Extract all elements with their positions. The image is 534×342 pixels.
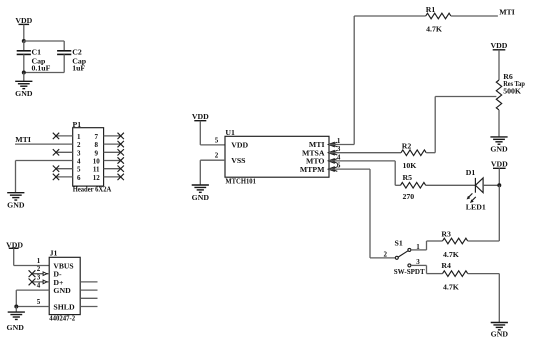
ground symbol (U1) xyxy=(192,185,210,202)
wire P1 pin4 to ground xyxy=(16,161,73,193)
wire J1 shield pin 4 xyxy=(80,306,97,308)
wire VDD stem to node xyxy=(23,24,25,41)
switch S1 pole contact (pin2) xyxy=(395,256,398,259)
S1 pin 3 number xyxy=(416,258,420,266)
wire R5 left xyxy=(395,184,400,186)
wire P1 pin 7 xyxy=(104,135,121,137)
input arrow U1 pin6 xyxy=(328,167,337,172)
svg-text:3: 3 xyxy=(337,145,341,153)
S1 pin 2 number xyxy=(384,250,388,258)
U1 pin name MTPM xyxy=(300,165,325,174)
svg-text:MTPM: MTPM xyxy=(300,165,325,174)
net label MTI (top-right) xyxy=(499,8,515,17)
wire P1 pin5 xyxy=(56,168,73,170)
P1 pin 10 number xyxy=(93,158,101,166)
switch S1 lever xyxy=(398,251,408,257)
wire R2 right to tap xyxy=(426,152,435,154)
svg-text:10: 10 xyxy=(93,158,101,166)
svg-text:LED1: LED1 xyxy=(466,203,486,212)
svg-text:VSS: VSS xyxy=(231,156,245,165)
J1 pin 3 number xyxy=(37,273,41,281)
power flag VDD (J1) xyxy=(6,240,23,249)
wire R5 to LED xyxy=(426,184,476,186)
svg-text:SHLD: SHLD xyxy=(53,302,75,311)
svg-text:5: 5 xyxy=(215,136,219,144)
switch S1 throw contact (pin1) xyxy=(408,248,411,251)
connector P1 designator xyxy=(73,120,82,129)
wire J1 shield pin 2 xyxy=(80,289,97,291)
input arrow J1 pin2 xyxy=(43,272,47,276)
P1 pin 5 number xyxy=(77,166,81,174)
no-connect X on P1 pin3 xyxy=(53,149,59,155)
wire VDD to U1 pin5 xyxy=(200,121,225,145)
svg-text:12: 12 xyxy=(93,174,101,182)
svg-text:SW-SPDT: SW-SPDT xyxy=(394,267,426,276)
P1 pin 1 number xyxy=(77,133,81,141)
P1 pin 11 number xyxy=(93,166,100,174)
svg-text:R3: R3 xyxy=(441,230,451,239)
wire J1 pin2 xyxy=(32,273,49,275)
LED D1 xyxy=(466,168,486,212)
switch S1 designator xyxy=(395,239,403,248)
wire J1 pin4 to ground node xyxy=(16,290,49,306)
J1 pin name D- xyxy=(53,270,62,279)
svg-text:GND: GND xyxy=(192,193,210,202)
no-connect X on P1 pin5 xyxy=(53,166,59,172)
no-connect X on P1 pin 12 xyxy=(118,174,124,180)
resistor R1 xyxy=(426,5,451,33)
P1 pin 8 number xyxy=(94,141,98,149)
U1 value label MTCH101 xyxy=(225,176,256,185)
svg-text:440247-2: 440247-2 xyxy=(49,314,75,323)
wire R1 right to MTI xyxy=(451,15,498,17)
svg-text:1: 1 xyxy=(77,133,81,141)
ground symbol (J1) xyxy=(7,312,25,332)
power flag VDD (top-left) xyxy=(15,16,32,25)
svg-text:500K: 500K xyxy=(503,87,521,96)
switch S1 throw contact (pin3) xyxy=(408,264,411,267)
svg-text:8: 8 xyxy=(94,141,98,149)
U1 pin 6 number xyxy=(337,162,341,170)
P1 pin 2 number xyxy=(77,141,81,149)
resistor R6 (Res Tap) xyxy=(496,72,525,110)
wire VDD stem to LED node xyxy=(498,168,500,185)
wire R1 left xyxy=(354,15,426,17)
wire R4 right down to ground xyxy=(468,274,500,323)
resistor R5 xyxy=(401,173,426,201)
J1 value label xyxy=(49,314,75,323)
wire U1 pin1 up to R1 row xyxy=(329,16,354,145)
no-connect X on P1 pin 10 xyxy=(118,157,124,163)
wire U1 pin4 down to R5 xyxy=(329,161,395,185)
U1 pin name MTSA xyxy=(302,148,325,157)
S1 pin 1 number xyxy=(416,243,420,251)
wire VDD to R6 xyxy=(498,50,500,80)
wire R3 right up to LED node xyxy=(468,240,500,242)
wire U1 pin6 to S1 xyxy=(329,169,395,258)
svg-text:GND: GND xyxy=(7,323,25,332)
U1 pin name MTI xyxy=(309,140,325,149)
wire node to ground xyxy=(23,73,25,82)
no-connect X on P1 pin 9 xyxy=(118,149,124,155)
svg-text:2: 2 xyxy=(37,265,41,273)
ground symbol (top-left) xyxy=(15,81,33,98)
node junction (LED/VDD/R3) xyxy=(497,183,501,187)
wire P1 pin 10 xyxy=(104,160,121,162)
svg-text:11: 11 xyxy=(93,166,100,174)
resistor R2 xyxy=(401,141,426,170)
svg-text:7: 7 xyxy=(94,133,98,141)
U1 designator xyxy=(225,128,235,137)
J1 pin 4 number xyxy=(37,282,41,290)
wire S1 pin3 to R4 xyxy=(411,265,443,273)
svg-text:GND: GND xyxy=(15,89,33,98)
connector J1 body xyxy=(49,257,80,314)
svg-text:2: 2 xyxy=(77,141,81,149)
wire U1 pin2 to ground xyxy=(200,160,225,185)
svg-text:MTI: MTI xyxy=(499,8,515,17)
svg-text:GND: GND xyxy=(490,145,508,154)
wire LED node down to R3 xyxy=(498,185,500,241)
no-connect X on J1 pin3 xyxy=(29,279,36,286)
P1 pin 3 number xyxy=(77,149,81,157)
J1 pin name SHLD xyxy=(53,302,75,311)
svg-text:S1: S1 xyxy=(395,239,403,248)
svg-text:4: 4 xyxy=(337,153,341,161)
U1 pin name VSS xyxy=(231,156,245,165)
U1 pin name MTO xyxy=(306,157,324,166)
power flag VDD (U1) xyxy=(192,112,209,121)
node junction bottom (C1/C2/GND) xyxy=(22,71,26,75)
connector P1 body xyxy=(73,128,104,186)
power flag VDD (R6) xyxy=(491,41,508,50)
wire J1 shield pin 1 xyxy=(80,281,97,283)
input arrow U1 pin3 xyxy=(328,150,337,155)
P1 pin 9 number xyxy=(94,149,98,157)
wire R6 tap xyxy=(435,97,496,153)
svg-text:VDD: VDD xyxy=(231,141,248,150)
wire P1 pin 11 xyxy=(104,168,121,170)
P1 pin 7 number xyxy=(94,133,98,141)
wire P1 pin 8 xyxy=(104,143,121,145)
P1 pin 4 number xyxy=(77,158,81,166)
svg-text:R2: R2 xyxy=(402,141,412,150)
svg-text:6: 6 xyxy=(77,174,81,182)
IC U1 body xyxy=(225,136,329,177)
svg-text:1: 1 xyxy=(337,137,341,145)
power flag VDD (LED) xyxy=(491,160,508,169)
input arrow J1 pin3 xyxy=(43,280,47,284)
wire J1 pin5 (SHLD) xyxy=(16,306,49,308)
wire U1 pin3 to R2 xyxy=(329,152,401,154)
no-connect X on J1 pin2 xyxy=(29,270,36,277)
svg-text:GND: GND xyxy=(53,286,71,295)
svg-text:GND: GND xyxy=(7,201,25,210)
svg-text:6: 6 xyxy=(337,162,341,170)
no-connect X on P1 pin 11 xyxy=(118,166,124,172)
no-connect X on P1 pin1 xyxy=(53,133,59,139)
no-connect X on P1 pin 8 xyxy=(118,141,124,147)
svg-text:2: 2 xyxy=(384,250,388,258)
node junction top (VDD/C1/C2) xyxy=(22,39,26,43)
svg-text:C1: C1 xyxy=(32,48,42,57)
wire VDD to J1 pin1 xyxy=(14,248,50,265)
svg-text:R4: R4 xyxy=(441,261,451,270)
svg-text:3: 3 xyxy=(37,273,41,281)
wire MTI to P1 pin2 xyxy=(15,143,73,145)
P1 pin 12 number xyxy=(93,174,101,182)
ground symbol (R6) xyxy=(490,137,508,154)
svg-text:0.1uF: 0.1uF xyxy=(32,64,51,73)
wire R6 bottom to ground xyxy=(498,110,500,137)
J1 pin 5 number xyxy=(37,298,41,306)
svg-text:R5: R5 xyxy=(403,173,413,182)
U1 pin 2 number xyxy=(215,152,219,160)
J1 pin name D+ xyxy=(53,278,64,287)
J1 pin name GND xyxy=(53,286,71,295)
S1 value label SW-SPDT xyxy=(394,267,426,276)
wire P1 pin1 xyxy=(56,135,73,137)
svg-text:4.7K: 4.7K xyxy=(426,24,442,33)
J1 pin name VBUS xyxy=(53,261,73,270)
svg-text:MTI: MTI xyxy=(15,135,31,144)
svg-text:3: 3 xyxy=(77,149,81,157)
resistor R4 xyxy=(441,261,467,291)
svg-text:4: 4 xyxy=(37,282,41,290)
svg-text:GND: GND xyxy=(491,330,509,339)
svg-text:VDD: VDD xyxy=(192,112,209,121)
J1 pin 2 number xyxy=(37,265,41,273)
svg-text:D1: D1 xyxy=(466,168,476,177)
wire P1 pin6 xyxy=(56,176,73,178)
svg-text:Header 6X2A: Header 6X2A xyxy=(73,185,112,194)
input arrow U1 pin4 xyxy=(328,159,337,164)
connector J1 designator xyxy=(50,249,58,258)
capacitor C1 xyxy=(17,41,51,73)
wire P1 pin3 xyxy=(56,151,73,153)
wire P1 pin 12 xyxy=(104,176,121,178)
wire J1 node to ground xyxy=(15,307,17,313)
svg-text:C2: C2 xyxy=(72,48,82,57)
svg-text:4.7K: 4.7K xyxy=(443,250,459,259)
svg-text:5: 5 xyxy=(77,166,81,174)
svg-text:270: 270 xyxy=(403,192,415,201)
P1 pin 6 number xyxy=(77,174,81,182)
wire J1 pin3 xyxy=(32,281,49,283)
J1 pin 1 number xyxy=(37,257,41,265)
ground symbol (bottom-right) xyxy=(491,323,509,339)
wire LED to VDD node xyxy=(483,184,499,186)
svg-text:4: 4 xyxy=(77,158,81,166)
svg-text:2: 2 xyxy=(215,152,219,160)
no-connect X on P1 pin 7 xyxy=(118,133,124,139)
wire J1 shield pin 3 xyxy=(80,297,97,299)
svg-text:9: 9 xyxy=(94,149,98,157)
U1 pin 3 number xyxy=(337,145,341,153)
svg-text:1: 1 xyxy=(37,257,41,265)
U1 pin name VDD xyxy=(231,141,248,150)
input arrow U1 pin1 xyxy=(328,142,337,147)
node junction (J1 ground) xyxy=(14,305,18,309)
U1 pin 1 number xyxy=(337,137,341,145)
ground symbol (P1 pin4) xyxy=(7,193,25,210)
svg-text:VDD: VDD xyxy=(491,160,508,169)
P1 value label xyxy=(73,185,112,194)
wire P1 pin 9 xyxy=(104,151,121,153)
U1 pin 5 number xyxy=(215,136,219,144)
svg-text:VDD: VDD xyxy=(491,41,508,50)
wire S1 pin1 to R3 xyxy=(411,241,443,250)
wire top node to C2 branch xyxy=(24,41,64,51)
svg-text:MTCH101: MTCH101 xyxy=(225,176,256,185)
svg-text:VDD: VDD xyxy=(15,16,32,25)
no-connect X on P1 pin6 xyxy=(53,174,59,180)
svg-text:10K: 10K xyxy=(403,161,417,170)
resistor R3 xyxy=(441,230,467,259)
wire bottom C2 branch to node xyxy=(24,72,64,74)
svg-text:J1: J1 xyxy=(50,249,58,258)
U1 pin 4 number xyxy=(337,153,341,161)
capacitor C2 xyxy=(57,48,87,73)
svg-text:1uF: 1uF xyxy=(72,64,85,73)
svg-text:4.7K: 4.7K xyxy=(443,282,459,291)
net label MTI (P1 pin2) xyxy=(15,135,31,144)
svg-text:R1: R1 xyxy=(426,5,436,14)
svg-text:5: 5 xyxy=(37,298,41,306)
